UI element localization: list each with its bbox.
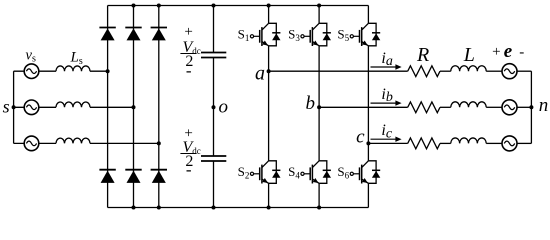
svg-text:s: s: [3, 97, 10, 117]
svg-text:c: c: [356, 126, 365, 147]
svg-text:+: +: [492, 44, 500, 60]
svg-text:-: -: [186, 160, 192, 179]
svg-text:e: e: [504, 41, 513, 62]
svg-text:b: b: [306, 93, 316, 114]
svg-text:o: o: [219, 97, 229, 118]
svg-text:+: +: [184, 24, 192, 40]
svg-text:-: -: [519, 44, 524, 60]
svg-text:a: a: [255, 63, 265, 85]
svg-text:R: R: [416, 44, 429, 66]
svg-text:-: -: [186, 61, 192, 80]
svg-text:L: L: [463, 44, 475, 66]
svg-text:n: n: [539, 95, 549, 116]
